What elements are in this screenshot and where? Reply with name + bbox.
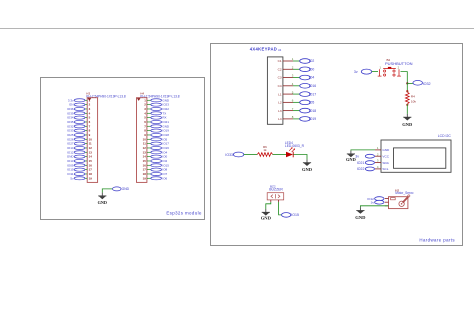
keypad U4 body [267, 57, 283, 124]
LED4 labels [285, 141, 305, 148]
svg-text:4X4KEYPAD: 4X4KEYPAD [250, 46, 277, 51]
connector H3 ref and name [86, 92, 126, 99]
buzzer BZ2 labels [269, 184, 283, 191]
svg-text:IO22: IO22 [357, 167, 365, 171]
H4 pin 4 port TX [144, 111, 166, 115]
keypad pin 4 C4 wire and port IO16 [278, 82, 317, 88]
svg-text:PUSHBUTTON: PUSHBUTTON [385, 61, 413, 66]
keypad pin 3 C3 wire and port IO4 [278, 74, 315, 80]
wire junction to IO32 [407, 82, 413, 84]
H3 pin 17 port IO10 [67, 168, 92, 172]
H3 pin 7 port IO32 [67, 124, 91, 128]
Esp32s module box [41, 78, 205, 220]
H4 pin 12 port IO16 [143, 146, 170, 150]
svg-text:GND: GND [402, 122, 413, 127]
H4 pin 11 port IO17 [143, 142, 169, 146]
wire 3v to button [372, 71, 378, 73]
keypad pin 7 L3 wire and port IO18 [278, 107, 316, 113]
LCD pin 3 SDA [375, 159, 390, 165]
svg-text:C1: C1 [278, 59, 282, 63]
svg-text:GND: GND [302, 167, 313, 172]
H4 pin 18 port IO7 [143, 172, 168, 176]
H3 pin 8 port IO33 [67, 129, 91, 133]
port IO12 servo [367, 197, 384, 201]
LCD pin 4 SCL [375, 165, 389, 171]
H3 pin 15 port IO13 [67, 159, 92, 163]
keypad pin 6 L2 wire and port IO5 [278, 99, 314, 105]
H4 pin 1 port GND [144, 98, 170, 102]
svg-text:19: 19 [89, 176, 93, 180]
svg-text:SDA: SDA [382, 161, 389, 165]
svg-text:GND: GND [98, 200, 107, 205]
svg-text:L3: L3 [278, 109, 282, 113]
svg-text:IO16: IO16 [309, 84, 316, 88]
H3 pin 18 port IO11 [67, 172, 92, 176]
wire R4 to ground [406, 104, 408, 114]
H3 pin 11 port IO27 [67, 142, 92, 146]
svg-text:LCD I2C: LCD I2C [438, 134, 452, 138]
H3 pin 5 port IO34 [67, 116, 91, 120]
H4 pin 7 port GND [144, 124, 170, 128]
H4 pin 3 port IO22 [144, 107, 169, 111]
ground symbol buzzer [261, 209, 272, 220]
svg-text:IO5: IO5 [309, 101, 315, 105]
resistor R4 10k [405, 90, 416, 105]
svg-text:IO4: IO4 [309, 76, 315, 80]
Hardware parts box [211, 44, 463, 246]
wire R6 to LED [273, 154, 286, 156]
wire buzzer pin1 to ground [266, 200, 271, 209]
svg-text:10k: 10k [411, 100, 416, 104]
H4 pin 19 port IO6 [143, 176, 168, 180]
LCD pin 1 GND [375, 146, 390, 152]
H3 pin 4 port IO39 [67, 111, 91, 115]
wire button to junction [401, 72, 408, 84]
wire buzzer pin2 to IO15 [279, 200, 282, 215]
port 3v pushbutton [354, 69, 372, 74]
H3 pin 19 port 5v [70, 176, 92, 180]
wire LED to ground [293, 155, 307, 160]
LED LED4 symbol [286, 147, 295, 157]
svg-text:Motor_Servo: Motor_Servo [395, 191, 413, 195]
svg-text:IO17: IO17 [309, 92, 316, 96]
resistor R6 1k [257, 145, 273, 157]
H4 pin 17 port IO8 [143, 168, 168, 172]
svg-text:SCL: SCL [382, 167, 388, 171]
H3 pin 14 port GND [67, 155, 92, 159]
servo pins [385, 199, 389, 206]
svg-text:IO15: IO15 [291, 213, 299, 217]
H4 pin 10 port IO5 [143, 137, 168, 141]
svg-text:C4: C4 [278, 84, 282, 88]
H4 pin 16 port IO15 [143, 163, 170, 167]
ground symbol servo [355, 207, 366, 220]
keypad pin 1 C1 wire and port IO2 [278, 57, 315, 63]
H3 pin 9 port IO25 [67, 133, 91, 137]
H4 pin 15 port IO2 [143, 159, 168, 163]
svg-text:1k: 1k [263, 148, 267, 152]
svg-text:IO19: IO19 [309, 117, 316, 121]
ground symbol pushbutton [402, 114, 413, 127]
H3 pin 3 port IO36 [67, 107, 91, 111]
svg-text:U4: U4 [278, 48, 282, 52]
pushbutton B2 labels [385, 58, 413, 66]
servo M3 labels [395, 188, 414, 195]
svg-text:R4: R4 [411, 94, 415, 98]
keypad pin 8 L4 wire and port IO19 [278, 115, 316, 121]
LCD I2C title [438, 134, 452, 138]
svg-text:Esp32s module: Esp32s module [166, 211, 202, 216]
connector H4 body [137, 98, 147, 183]
port 3v servo [371, 200, 384, 204]
svg-text:GND: GND [355, 215, 366, 220]
wire servo pin3 to ground [360, 206, 388, 207]
H4 pin 13 port IO4 [143, 150, 168, 154]
svg-text:IO18: IO18 [309, 109, 316, 113]
svg-text:IO6: IO6 [162, 176, 167, 180]
svg-text:IO0: IO0 [309, 67, 315, 71]
keypad pin 5 L1 wire and port IO17 [278, 90, 316, 96]
svg-text:GND: GND [122, 187, 130, 191]
svg-text:C2: C2 [278, 67, 282, 71]
port IO15 [282, 213, 299, 218]
keypad U4 title [250, 46, 282, 52]
H3 pin 12 port IO14 [67, 146, 92, 150]
svg-text:IO2: IO2 [309, 59, 315, 63]
ground symbol LCD [346, 151, 356, 162]
buzzer BZ2 body [267, 193, 284, 200]
LCD pin 2 VCC [375, 152, 390, 158]
LCD body [381, 140, 451, 172]
svg-text:3v: 3v [355, 154, 359, 158]
ground symbol LED [302, 159, 313, 172]
servo M3 body [389, 195, 410, 209]
H4 pin 9 port IO18 [144, 133, 169, 137]
port IO32 [413, 81, 431, 86]
port GND esp32 [113, 187, 130, 191]
wire LCD GND pin to ground [351, 149, 375, 152]
wire junction to R4 [406, 83, 408, 92]
svg-text:IO21: IO21 [357, 161, 365, 165]
connector H3 body [87, 98, 97, 183]
svg-text:C3: C3 [278, 76, 282, 80]
connector H4 ref and name [140, 92, 180, 99]
svg-text:19: 19 [143, 176, 147, 180]
H4 pin 5 port RX [144, 116, 166, 120]
svg-text:BUZZER: BUZZER [269, 188, 283, 192]
port 3v LCD [355, 154, 374, 158]
port IO21 [357, 161, 375, 165]
svg-text:5v: 5v [70, 176, 74, 180]
wire IO33 to R6 [244, 154, 257, 156]
H3 pin 13 port IO12 [67, 150, 92, 154]
H3 pin 1 port 3.3v [68, 98, 91, 102]
H3 pin 2 port EN [69, 103, 90, 107]
wire GND net esp32 [102, 189, 112, 193]
port IO33 [225, 152, 243, 157]
svg-text:VCC: VCC [382, 154, 389, 158]
svg-text:L1: L1 [278, 92, 282, 96]
svg-text:L2: L2 [278, 101, 282, 105]
H4 pin 14 port IO0 [143, 155, 168, 159]
H4 pin 8 port IO19 [144, 129, 169, 133]
H3 pin 10 port IO26 [67, 137, 92, 141]
svg-text:GND: GND [382, 148, 390, 152]
pushbutton B2 symbol [378, 66, 401, 77]
port IO22 [357, 167, 375, 171]
svg-text:IO32: IO32 [423, 82, 431, 86]
svg-text:3v: 3v [371, 200, 375, 204]
junction node [406, 82, 408, 84]
svg-text:GND: GND [261, 215, 272, 220]
svg-text:3v: 3v [354, 70, 358, 74]
H3 pin 6 port IO35 [67, 120, 91, 124]
keypad pin 2 C2 wire and port IO0 [278, 65, 315, 71]
ground symbol esp32 [98, 193, 107, 205]
H3 pin 16 port IO09 [67, 163, 92, 167]
H4 pin 2 port IO23 [144, 103, 169, 107]
svg-text:Hardware parts: Hardware parts [419, 237, 455, 242]
svg-text:LED-0603_R: LED-0603_R [285, 144, 305, 148]
H4 pin 6 port IO21 [144, 120, 169, 124]
svg-text:IO33: IO33 [225, 153, 233, 157]
svg-text:L4: L4 [278, 117, 282, 121]
